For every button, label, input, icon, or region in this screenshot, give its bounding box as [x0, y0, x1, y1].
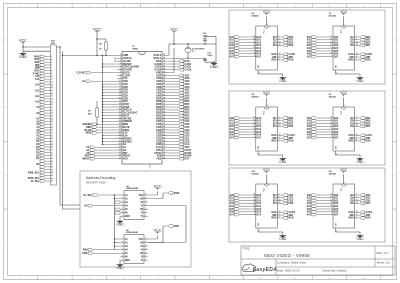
node CASX [167, 68, 192, 71]
svg-text:26: 26 [119, 126, 121, 128]
svg-text:4: 4 [356, 55, 357, 58]
svg-text:DA6: DA6 [334, 134, 339, 137]
svg-text:DA3: DA3 [257, 125, 262, 128]
svg-text:11: 11 [331, 125, 333, 127]
svg-text:7: 7 [51, 67, 52, 69]
svg-text:28: 28 [119, 132, 121, 134]
svg-text:DA5: DA5 [257, 131, 262, 134]
power VCC U11 [340, 168, 348, 192]
node A6 connector pin 26 [36, 120, 53, 123]
svg-text:3: 3 [356, 120, 357, 122]
memory U7 D41464 DRAM [329, 13, 355, 70]
svg-text:A07: A07 [307, 136, 312, 139]
svg-text:M74HC4002N: M74HC4002N [126, 231, 139, 234]
svg-text:45: 45 [163, 136, 165, 139]
node HSYN [167, 152, 192, 155]
svg-text:13: 13 [119, 89, 121, 91]
node CPUC [167, 149, 192, 152]
node SYNC connector pin 9 [33, 72, 52, 75]
svg-text:RD7: RD7 [366, 125, 371, 128]
svg-text:M74HC4002N: M74HC4002N [126, 187, 139, 190]
svg-text:59: 59 [163, 97, 165, 99]
node U9 A02 address [307, 122, 339, 125]
node CD4 [167, 129, 190, 132]
svg-text:56: 56 [163, 106, 165, 108]
svg-text:VCC: VCC [170, 27, 178, 31]
svg-text:13: 13 [253, 120, 255, 122]
svg-text:DA4: DA4 [334, 47, 339, 50]
svg-text:13: 13 [330, 197, 332, 199]
svg-text:16: 16 [119, 97, 121, 99]
node A2 connector pin 30 [36, 132, 53, 135]
svg-text:DA3: DA3 [334, 202, 339, 205]
svg-text:A07: A07 [307, 213, 312, 216]
svg-text:12: 12 [145, 245, 147, 247]
svg-text:7: 7 [331, 136, 332, 138]
group box VRAM bank 1 [229, 10, 385, 84]
ground connector pin2 [19, 47, 50, 59]
svg-text:Address Decoding: Address Decoding [86, 176, 115, 180]
svg-text:9: 9 [120, 77, 121, 79]
svg-text:46: 46 [163, 134, 165, 137]
svg-text:VSS: VSS [123, 158, 128, 161]
svg-text:62: 62 [163, 89, 165, 91]
stub inputs U4 [115, 201, 120, 214]
node CD7 [167, 120, 190, 123]
svg-text:69: 69 [163, 69, 165, 71]
node U10 A06 address [229, 211, 261, 214]
node R/W connector pin 5 [35, 61, 52, 64]
svg-text:4: 4 [356, 136, 357, 139]
node U9 A00 address [307, 116, 339, 120]
svg-text:18: 18 [279, 125, 281, 127]
svg-text:61: 61 [163, 92, 165, 94]
svg-text:18: 18 [279, 44, 281, 46]
svg-text:VCC: VCC [138, 195, 143, 197]
node U7 A05 address [307, 50, 339, 53]
svg-text:GND: GND [116, 266, 124, 270]
svg-text:17: 17 [119, 100, 121, 102]
svg-text:DA0: DA0 [257, 36, 262, 39]
node connector pin 20 [40, 103, 53, 106]
node IRQ connector pin 6 [35, 64, 52, 67]
svg-text:8: 8 [51, 70, 52, 72]
svg-text:/WAIT: /WAIT [82, 158, 89, 161]
svg-text:33: 33 [119, 146, 121, 148]
svg-text:D41464: D41464 [329, 15, 337, 18]
svg-text:74: 74 [163, 53, 165, 56]
svg-text:15: 15 [51, 90, 53, 92]
svg-text:48: 48 [163, 128, 165, 131]
power VCC U5 [148, 228, 162, 239]
svg-text:VCC: VCC [19, 38, 27, 42]
node U7 BD5 data [350, 39, 371, 42]
svg-text:6502 VIDEO - V9958: 6502 VIDEO - V9958 [264, 253, 310, 258]
node AD6 [167, 77, 190, 80]
svg-text:5: 5 [51, 62, 52, 64]
svg-text:GND: GND [279, 160, 287, 164]
svg-text:25: 25 [119, 123, 121, 125]
node U8 A02 address [229, 122, 261, 125]
svg-text:DA6: DA6 [257, 211, 262, 214]
svg-text:VCC: VCC [263, 168, 271, 172]
svg-text:10: 10 [253, 128, 255, 130]
svg-text:BD3: BD3 [288, 44, 293, 47]
svg-text:19: 19 [119, 106, 121, 108]
svg-text:GND: GND [356, 237, 364, 241]
node RD6 [167, 100, 190, 103]
node connector pin 18 [40, 98, 53, 101]
svg-text:24: 24 [119, 119, 121, 122]
svg-text:16: 16 [279, 134, 281, 136]
svg-text:70: 70 [163, 66, 165, 68]
svg-text:RAM_SEL: RAM_SEL [28, 171, 40, 174]
power VCC connector pin1 [19, 38, 50, 47]
node A14 connector pin 11 [35, 78, 53, 81]
svg-text:RAS: RAS [366, 140, 371, 143]
node connector pin 22 [40, 109, 53, 112]
svg-text:10: 10 [119, 80, 121, 82]
node AD2 [167, 89, 190, 92]
node U8 RD0 data [273, 117, 294, 120]
svg-text:14: 14 [330, 193, 332, 196]
power VCC U7 [340, 10, 348, 34]
node U6 A01 address [229, 39, 261, 42]
svg-text:VCC: VCC [340, 10, 348, 14]
node U9 /WR control [349, 136, 370, 140]
svg-text:/WE: /WE [272, 138, 277, 140]
svg-text:/RAS: /RAS [348, 140, 354, 143]
node U7 BD6 data [350, 41, 371, 44]
node CLK [167, 143, 190, 146]
node U10 A05 address [229, 208, 261, 211]
svg-text:VIRQ: VIRQ [85, 132, 91, 135]
svg-text:9: 9 [331, 208, 332, 210]
node U8 /WR control [272, 136, 293, 140]
svg-text:CASX: CASX [184, 69, 191, 72]
svg-text:38: 38 [163, 158, 165, 160]
svg-text:8: 8 [331, 134, 332, 136]
svg-text:8: 8 [254, 211, 255, 213]
svg-text:DA0: DA0 [334, 36, 339, 39]
node U11 RAS control [348, 217, 371, 220]
node ION input flag [83, 248, 120, 251]
ground U4 [116, 216, 124, 226]
svg-text:31: 31 [119, 140, 121, 142]
node U10 CD1 data [273, 197, 294, 200]
node U6 A04 address [229, 47, 261, 50]
svg-text:10: 10 [145, 252, 147, 254]
svg-text:CSR: CSR [82, 252, 87, 255]
node U11 A03 address [307, 202, 339, 205]
svg-text:2: 2 [356, 194, 357, 196]
svg-text:A12: A12 [35, 89, 40, 92]
svg-text:14: 14 [330, 35, 332, 38]
node D7 connector pin 33 [36, 140, 53, 143]
svg-text:/CAS: /CAS [348, 134, 354, 137]
svg-text:CSYNC: CSYNC [77, 71, 86, 74]
svg-text:4: 4 [279, 55, 280, 58]
ground U7 OE pin [335, 64, 364, 83]
svg-text:72: 72 [163, 60, 165, 62]
svg-text:17: 17 [51, 96, 53, 98]
svg-text:Sheet: 1/2: Sheet: 1/2 [377, 261, 391, 265]
resistor R2 1K [97, 39, 107, 56]
svg-text:8: 8 [331, 53, 332, 55]
node U6 A00 address [229, 35, 261, 39]
group box VRAM bank 3 [229, 168, 385, 242]
node D0 connector pin 41 [36, 163, 53, 166]
svg-text:7: 7 [254, 213, 255, 215]
svg-text:2: 2 [279, 194, 280, 196]
svg-text:8: 8 [259, 73, 260, 75]
svg-text:/RAS: /RAS [348, 217, 354, 220]
svg-text:13: 13 [253, 197, 255, 199]
svg-text:V9958: V9958 [132, 48, 139, 50]
node U9 RAS control [348, 140, 371, 143]
svg-text:DA0: DA0 [257, 117, 262, 120]
wire U1 VSS down [149, 164, 151, 169]
node VIRQ flag [85, 132, 117, 135]
svg-text:D41464: D41464 [329, 96, 337, 99]
svg-text:VCC: VCC [153, 228, 161, 232]
node /WAIT bottom flag [82, 157, 117, 160]
node U6 RAS control [271, 59, 294, 62]
svg-text:6: 6 [51, 65, 52, 67]
node U9 A07 address [307, 136, 339, 139]
svg-text:DA5: DA5 [334, 50, 339, 53]
node CD1 [167, 137, 190, 140]
svg-text:3: 3 [356, 39, 357, 41]
node U9 RD4 data [350, 117, 371, 120]
node U9 RD6 data [350, 122, 371, 125]
svg-text:17: 17 [356, 199, 358, 201]
svg-text:18: 18 [356, 202, 358, 204]
node A15 connector pin 10 [35, 75, 53, 78]
node IOW output flag [148, 192, 180, 199]
node U10 RAS control [271, 217, 294, 220]
node connector pin 12 [40, 81, 53, 84]
node U6 BD0 data [273, 36, 294, 39]
node CD0 [167, 140, 190, 143]
svg-text:DA3: DA3 [257, 202, 262, 205]
svg-text:17: 17 [356, 122, 358, 124]
svg-text:D41464: D41464 [252, 96, 260, 99]
svg-text:19: 19 [51, 101, 53, 103]
svg-text:DA5: DA5 [334, 131, 339, 134]
svg-text:2X23: 2X23 [51, 43, 55, 45]
svg-text:DA5: DA5 [257, 208, 262, 211]
node GREEN flag [82, 123, 117, 126]
wire U5 inputs from bus [114, 238, 120, 247]
svg-text:22pF: 22pF [208, 55, 213, 57]
svg-text:23: 23 [51, 113, 53, 115]
node A12 connector pin 15 [35, 89, 53, 92]
svg-text:GND: GND [116, 223, 124, 227]
node AD4 [167, 83, 190, 86]
svg-text:9: 9 [254, 131, 255, 133]
svg-text:Company: Eddie Chan: Company: Eddie Chan [277, 260, 306, 264]
svg-text:DA2: DA2 [334, 199, 339, 202]
svg-text:18: 18 [279, 202, 281, 204]
svg-text:IO_SEL: IO_SEL [83, 194, 92, 197]
svg-text:16: 16 [279, 53, 281, 55]
svg-text:DA4: DA4 [257, 47, 262, 50]
svg-text:13: 13 [253, 39, 255, 41]
node RAS [167, 60, 190, 63]
svg-text:39: 39 [163, 155, 165, 157]
node U11 CASX control [348, 211, 372, 214]
svg-text:4: 4 [120, 62, 121, 65]
svg-text:DA0: DA0 [257, 194, 262, 197]
svg-text:11: 11 [253, 202, 255, 204]
node connector pin 45 [40, 174, 53, 177]
IC U1 V9958 video display processor [117, 46, 167, 164]
node CD2 [167, 134, 190, 137]
node U7 BD4 data [350, 36, 371, 39]
svg-text:12: 12 [330, 199, 332, 201]
svg-text:DA2: DA2 [334, 122, 339, 125]
svg-text:/WE: /WE [349, 138, 354, 140]
svg-text:CD3: CD3 [288, 202, 293, 205]
power VCC pullup [93, 27, 101, 56]
node U8 A04 address [229, 128, 261, 131]
node CAS1 [167, 66, 192, 69]
svg-text:DA5: DA5 [334, 208, 339, 211]
node U10 A04 address [229, 205, 261, 208]
svg-text:44: 44 [163, 139, 165, 142]
node U9 RD5 data [350, 120, 371, 123]
svg-text:3: 3 [356, 197, 357, 199]
svg-text:DA4: DA4 [257, 205, 262, 208]
node U7 A03 address [307, 44, 339, 47]
no-connect U1 pin3 [115, 60, 117, 62]
power VCC U8 [263, 91, 271, 115]
svg-text:23: 23 [119, 117, 121, 119]
svg-text:/CAS: /CAS [348, 53, 354, 56]
memory U6 D41464 DRAM [252, 13, 278, 70]
svg-text:REV: 1.0: REV: 1.0 [377, 251, 389, 255]
svg-text:21: 21 [119, 112, 121, 114]
node connector pin 43 [40, 168, 53, 171]
node connector pin 14 [40, 86, 53, 89]
node RD7 [167, 97, 190, 100]
svg-text:12: 12 [253, 122, 255, 124]
svg-text:25: 25 [51, 118, 53, 120]
ground U5 [116, 260, 124, 270]
node U6 BD2 data [273, 41, 294, 44]
node U10 CD3 data [273, 202, 294, 205]
node ROM_SEL connector pin 46 [28, 177, 53, 180]
node U8 A00 address [229, 116, 261, 120]
svg-text:60: 60 [163, 94, 165, 96]
node AD5 [167, 80, 190, 83]
svg-text:10: 10 [330, 47, 332, 49]
node U11 CD6 data [350, 199, 371, 202]
svg-text:41: 41 [163, 148, 165, 151]
svg-text:8: 8 [259, 231, 260, 233]
node A11 connector pin 17 [35, 95, 53, 98]
svg-text:12: 12 [145, 201, 147, 203]
svg-text:3: 3 [279, 39, 280, 41]
svg-text:30: 30 [51, 133, 53, 135]
svg-text:2: 2 [120, 57, 121, 59]
svg-text:7: 7 [254, 55, 255, 57]
svg-text:4: 4 [279, 213, 280, 216]
svg-text:29: 29 [119, 135, 121, 137]
node AD7 [167, 74, 190, 77]
svg-text:RAS: RAS [288, 59, 293, 62]
svg-text:DA4: DA4 [334, 128, 339, 131]
power VCC crystal [170, 27, 178, 44]
wire XTAL1 net [167, 58, 206, 59]
node U8 A03 address [229, 125, 261, 128]
svg-text:A14: A14 [35, 78, 40, 81]
svg-text:RAS: RAS [366, 59, 371, 62]
svg-text:/WE: /WE [272, 215, 277, 217]
capacitor C11 22pF [203, 53, 213, 63]
svg-text:GND: GND [356, 160, 364, 164]
node RAM_SEL connector pin 44 [28, 171, 53, 174]
svg-text:GND: GND [125, 260, 130, 262]
node U6 A07 address [229, 55, 261, 58]
svg-text:13: 13 [51, 84, 53, 86]
svg-text:9: 9 [254, 50, 255, 52]
svg-text:14: 14 [119, 91, 121, 94]
svg-text:32: 32 [51, 138, 53, 140]
svg-text:36: 36 [51, 149, 53, 151]
svg-text:VCC: VCC [340, 91, 348, 95]
svg-text:D41464: D41464 [329, 173, 337, 176]
node CD3 [167, 132, 190, 135]
svg-text:16: 16 [279, 211, 281, 213]
node U6 A03 address [229, 44, 261, 47]
svg-text:/CAS: /CAS [271, 211, 277, 214]
node PHI2 connector pin 3 [34, 55, 52, 58]
svg-text:1: 1 [120, 54, 121, 56]
svg-text:3: 3 [51, 56, 52, 58]
svg-text:47: 47 [163, 131, 165, 134]
svg-text:4: 4 [356, 213, 357, 216]
svg-text:A11: A11 [35, 95, 40, 98]
svg-text:DA2: DA2 [257, 122, 262, 125]
ground crystal [205, 37, 218, 69]
node A9 connector pin 21 [36, 106, 53, 109]
svg-text:DA6: DA6 [257, 134, 262, 137]
logic IC U4 M74HC4002N [120, 185, 148, 220]
svg-text:10: 10 [330, 205, 332, 207]
svg-text:8: 8 [254, 134, 255, 136]
node CD5 [167, 126, 190, 129]
node IO_SEL connector pin 47 [31, 180, 53, 183]
wire XTAL2 net [167, 43, 216, 55]
node U9 A06 address [307, 134, 339, 137]
node D4 connector pin 36 [36, 149, 53, 152]
svg-text:GND: GND [279, 237, 287, 241]
svg-text:14: 14 [330, 116, 332, 119]
svg-text:Drawn By: madist2: Drawn By: madist2 [323, 269, 348, 273]
node D2 connector pin 38 [36, 154, 53, 157]
svg-text:DA3: DA3 [334, 44, 339, 47]
svg-text:13: 13 [145, 197, 147, 199]
node BLUE flag [84, 129, 117, 132]
group box VRAM bank 2 [229, 91, 385, 165]
svg-text:53: 53 [163, 114, 165, 116]
svg-text:ION: ION [83, 249, 88, 252]
svg-text:22: 22 [51, 110, 53, 112]
svg-text:67: 67 [163, 74, 165, 76]
svg-text:3: 3 [279, 197, 280, 199]
